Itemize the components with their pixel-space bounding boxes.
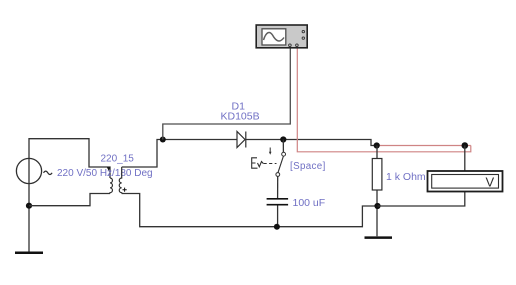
node A <box>280 136 286 142</box>
node: source bottom junction <box>26 203 32 209</box>
svg-text:100 uF: 100 uF <box>293 197 326 209</box>
transformer plus mark <box>123 188 127 192</box>
wire: scope channel A (gray) <box>163 46 290 140</box>
svg-text:220_15: 220_15 <box>101 154 135 165</box>
wire: secondary bottom to bus <box>122 194 378 227</box>
node: resistor bottom <box>374 203 380 209</box>
AC source V1 <box>16 158 52 183</box>
wire: source bottom / ground lead <box>28 184 30 253</box>
diode D1 <box>237 132 246 148</box>
switch J1 lever <box>278 156 283 172</box>
node: capacitor/bus junction <box>274 224 280 230</box>
switch actuator arrow <box>269 148 271 153</box>
oscilloscope sine trace <box>264 32 285 40</box>
wire: red output net (resistor top to voltmeter top) <box>377 145 471 147</box>
oscilloscope side terminals <box>302 30 304 32</box>
switch J1 bottom contact <box>276 173 280 177</box>
ground (resistor) <box>365 236 393 239</box>
oscilloscope XSC1 body <box>256 25 307 48</box>
switch dashed control line <box>264 163 277 165</box>
wire: secondary top to main line <box>122 140 237 168</box>
wire: scope channel B (red) <box>297 46 471 152</box>
wire: diode cathode to node A and resistor step <box>246 140 377 146</box>
node: resistor top <box>374 142 380 148</box>
svg-text:KD105B: KD105B <box>221 111 260 123</box>
wire: source top to transformer primary <box>29 139 110 178</box>
resistor R1 body <box>372 159 382 191</box>
wire: voltmeter return <box>378 192 465 207</box>
transformer T1 primary coil <box>110 178 112 194</box>
ground (source) <box>15 252 43 255</box>
svg-text:V: V <box>486 175 495 190</box>
switch J1 top contact <box>282 152 286 156</box>
svg-text:[Space]: [Space] <box>290 161 326 172</box>
wire: voltmeter top lead <box>464 146 466 172</box>
voltmeter U2 body <box>428 171 503 192</box>
oscilloscope bottom terminals <box>289 44 292 47</box>
node: secondary/scope junction <box>160 137 166 143</box>
switch E-key glyph <box>252 158 264 168</box>
transformer T1 secondary coil <box>119 167 121 194</box>
transformer polarity dot <box>107 167 110 170</box>
node: voltmeter top <box>462 142 469 149</box>
switch J1 lead from node A <box>282 140 284 153</box>
svg-text:1 k Ohm: 1 k Ohm <box>386 171 426 183</box>
voltmeter inner display <box>432 175 499 189</box>
wire: capacitor bottom to bus <box>277 206 279 227</box>
svg-text:220 V/50 Hz/180 Deg: 220 V/50 Hz/180 Deg <box>57 168 153 179</box>
wire: primary bottom return <box>29 194 110 206</box>
wire: switch to capacitor <box>277 176 279 198</box>
resistor R1 leads <box>376 146 378 237</box>
capacitor C1 <box>267 199 289 205</box>
oscilloscope screen <box>262 29 286 45</box>
